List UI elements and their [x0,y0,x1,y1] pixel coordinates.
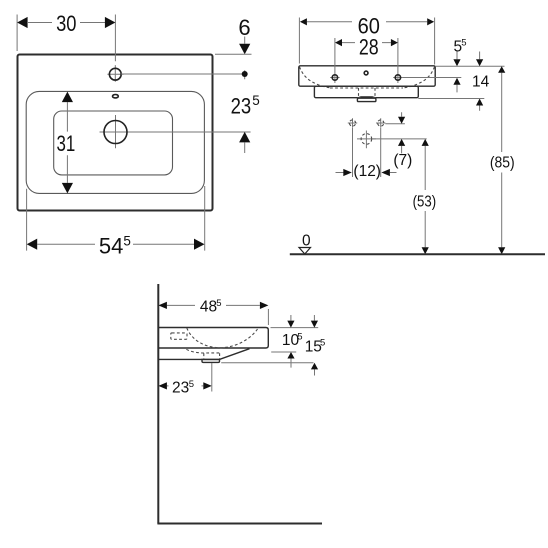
drain level line (front) [372,138,427,140]
hidden bowl underside (side) [186,349,219,353]
hidden bowl section (side) [187,328,258,348]
dimension 23-5 arrow [239,132,250,143]
dimension 28 arrows [335,39,342,46]
datum triangle [299,248,311,255]
faucet hole right crosshair [393,38,402,83]
dimension 30 extension lines [17,15,115,62]
svg-text:5: 5 [123,233,131,248]
dimension 31 line [66,102,68,183]
dimension 23-5 extension line (side) [211,363,213,392]
hidden bowl outline right (front) [404,67,435,88]
dimension 30 line [28,22,105,24]
dimension 5-5 arrows [456,52,458,93]
basin underside slope (side) [158,349,249,360]
dimension (85) arrows [498,66,505,73]
mounting hole extension lines down [353,128,381,177]
faucet level extension line (front) [403,77,462,79]
drain crosshair [100,115,251,148]
mounting hole left crosshair [348,118,357,127]
drain flange (front) [357,97,376,98]
svg-text:30: 30 [56,11,76,36]
mounting hole left [349,120,355,126]
drain circle (front, hidden) [361,134,372,145]
dimension 23-5 arrows (side) [158,382,167,389]
overflow hole (front) [364,71,368,75]
drain circle (plan) [104,121,127,144]
dimension (53) arrows [422,139,429,146]
faucet hole left [332,75,337,80]
dimension 10-5 arrows [290,315,292,368]
dimension 60 extension lines [299,18,434,65]
floor line (side) [157,523,322,525]
mounting hole right [378,120,384,126]
dimension 60 line [307,21,427,23]
svg-text:(85): (85) [490,154,515,171]
dimension 48-5 arrows [158,302,167,309]
slab top extension line (side) [271,327,319,329]
svg-text:14: 14 [472,74,490,91]
svg-text:31: 31 [57,131,76,156]
dimension 60 arrows [300,18,307,25]
dimension 23-5 line (side) [167,385,203,387]
drain crosshair (front) [357,131,376,149]
svg-text:5: 5 [461,37,466,48]
mounting hole right crosshair [376,118,385,127]
rim top extension line (front) [435,65,504,67]
dimension 54-5 line [37,243,194,245]
svg-text:48: 48 [200,299,217,316]
svg-text:(7): (7) [393,152,412,169]
semi-pedestal tier (front) [314,86,418,98]
svg-text:5: 5 [320,338,325,349]
hidden bowl outline left (front) [300,67,331,88]
basin bowl inner bottom (plan) [54,111,173,175]
dimension (53) line [424,146,426,247]
svg-text:5: 5 [216,298,221,309]
dimension (7) arrows [401,112,403,153]
faucet hole left crosshair [330,38,339,83]
hidden bowl bottom (front) [330,87,403,89]
dimension (12) arrows [336,172,397,174]
hidden drain pipe sides (side) [204,353,220,359]
svg-text:(12): (12) [353,163,381,180]
washbasin outer rim (plan) [18,55,213,211]
washbasin body (front) [299,66,435,86]
drain flange (side) [202,359,220,362]
floor line (front) [290,253,545,255]
dimension 28 line [342,42,391,44]
faucet hole right [395,75,400,80]
svg-text:23: 23 [172,380,189,397]
dimension 30 arrows [17,17,28,28]
overflow slot [113,95,119,98]
dimension 15-5 arrows [313,315,315,376]
dimension 48-5 line [167,304,260,306]
dimension 48-5 extension line [267,309,269,325]
svg-text:0: 0 [302,232,311,249]
wall line [157,284,159,524]
mounting hole level line [385,123,405,125]
tier bottom extension line (front) [418,98,484,100]
dimension 14 arrows [479,52,481,111]
rim top edge extension line [215,53,252,55]
washbasin slab (side) [158,328,268,349]
dimension 31 arrows [62,92,73,103]
dimension 54-5 arrows [27,239,38,250]
flange bottom extension line (side) [221,362,313,364]
tap hole center reference line with dot [121,70,245,79]
svg-text:5: 5 [297,331,302,342]
svg-text:28: 28 [359,34,379,59]
tap hole circle [109,68,121,80]
svg-text:(53): (53) [413,194,437,211]
hidden overflow channel (side) [171,333,187,339]
svg-text:6: 6 [238,15,250,40]
basin bowl outline (plan) [26,91,204,193]
dimension 6 arrow [244,37,246,44]
svg-text:5: 5 [252,93,260,108]
hidden drain sides (front) [359,88,376,98]
svg-text:5: 5 [189,379,194,390]
svg-text:54: 54 [99,234,123,259]
svg-text:23: 23 [231,93,252,118]
slab bottom extension line (side) [271,351,296,353]
dimension 54-5 extension lines [27,186,205,251]
tap hole crosshair [107,65,123,82]
dimension (85) line [501,73,503,248]
